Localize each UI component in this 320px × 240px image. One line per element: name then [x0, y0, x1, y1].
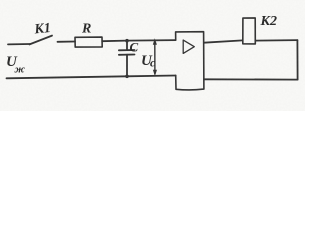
wire input top-left — [8, 43, 30, 45]
wire K2 to right corner — [255, 39, 297, 42]
wire bottom rail left — [7, 76, 176, 79]
op-amp U1 box — [176, 32, 204, 90]
capacitor C bottom lead — [126, 55, 128, 76]
resistor R body — [75, 37, 102, 47]
wire switch to resistor — [58, 41, 76, 43]
voltage arrow Uc shaft — [154, 42, 156, 74]
wire amplifier output to relay K2 — [204, 40, 243, 42]
paper texture (decorative) — [0, 0, 1, 1]
capacitor C top plate — [119, 49, 135, 51]
arrowhead Uc down — [153, 70, 157, 76]
relay coil K2 body — [243, 18, 256, 44]
wire bottom rail right — [204, 78, 298, 80]
wire resistor to node — [102, 40, 126, 43]
node junction dot bottom — [125, 75, 129, 79]
op-amp U1 triangle — [183, 40, 194, 53]
wire node to amplifier input — [127, 39, 176, 42]
switch K1 blade — [30, 36, 53, 45]
capacitor C bottom plate — [119, 54, 135, 56]
capacitor C top lead — [126, 41, 128, 50]
arrowhead Uc up — [153, 38, 157, 45]
node junction dot top — [125, 39, 129, 43]
wire right vertical — [296, 40, 298, 80]
